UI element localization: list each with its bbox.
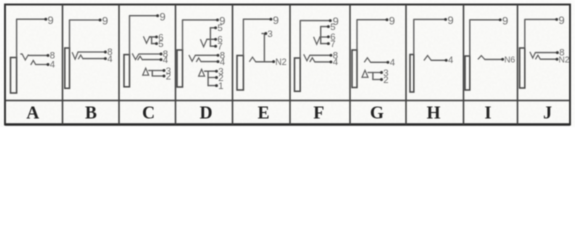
svg-text:E: E bbox=[258, 102, 270, 122]
wire to pin 4, column D bbox=[201, 61, 217, 63]
pin 9 junction dot, column B bbox=[99, 19, 102, 22]
element symbol V, column F upper group bbox=[314, 37, 320, 45]
wire from element bar top to pin 9, column F bbox=[300, 21, 330, 58]
column divider 8 bbox=[463, 5, 465, 125]
transducer element bar, column B bbox=[65, 48, 70, 88]
wire to pin 6, column D bbox=[207, 38, 215, 40]
pin 1 junction dot, column D bbox=[215, 84, 218, 87]
column divider 7 bbox=[405, 5, 407, 125]
svg-text:J: J bbox=[543, 102, 552, 122]
pin 8 junction dot, column B bbox=[104, 51, 107, 54]
pin 5 junction dot, column F bbox=[327, 25, 330, 28]
column divider 2 bbox=[118, 5, 120, 125]
element symbol caret, column J bbox=[535, 55, 540, 59]
transducer element bar, column F bbox=[295, 58, 301, 91]
wire to pin 1, column D bbox=[208, 85, 215, 87]
element symbol V, column J bbox=[530, 52, 536, 58]
svg-text:I: I bbox=[485, 102, 492, 122]
column divider 1 bbox=[62, 5, 64, 125]
letter row separator line bbox=[5, 100, 570, 102]
pin 9 junction dot, column H bbox=[444, 18, 447, 21]
table bottom border emphasis bbox=[5, 123, 570, 126]
element symbol caret, column G bbox=[364, 58, 370, 63]
wire to pin 4, column F bbox=[315, 61, 330, 63]
element symbol caret, column H bbox=[424, 56, 431, 61]
wire to pin 3, column C bbox=[152, 70, 163, 72]
element symbol caret, column I bbox=[478, 56, 485, 60]
wire to pin 2, column D bbox=[208, 77, 215, 79]
wire to pin 4, column B bbox=[83, 58, 104, 60]
pin N2 junction dot, column E bbox=[272, 60, 275, 63]
pin 6 junction dot, column C bbox=[155, 35, 158, 38]
svg-text:2: 2 bbox=[166, 72, 171, 83]
svg-text:9: 9 bbox=[559, 15, 565, 27]
svg-text:C: C bbox=[142, 102, 155, 122]
wire to pin 8, column J bbox=[536, 52, 557, 54]
column divider 9 bbox=[517, 5, 519, 125]
element symbol caret, column D bbox=[196, 58, 201, 62]
svg-text:3: 3 bbox=[267, 29, 272, 40]
element symbol V, column D middle group bbox=[189, 55, 195, 61]
transducer element bar, column I bbox=[465, 56, 470, 90]
pin 5 junction dot, column D bbox=[214, 26, 217, 29]
fork riser for pins 5-6-7, column D bbox=[209, 28, 211, 46]
pin 4 junction dot, column C bbox=[160, 58, 163, 61]
column divider 5 bbox=[289, 5, 291, 125]
svg-text:G: G bbox=[370, 102, 384, 122]
pin N6 junction dot, column I bbox=[501, 58, 504, 61]
svg-text:9: 9 bbox=[48, 15, 54, 27]
svg-text:D: D bbox=[200, 102, 213, 122]
svg-text:9: 9 bbox=[160, 11, 166, 23]
element symbol triangle, column G lower group bbox=[362, 70, 368, 77]
element symbol V, column B bbox=[72, 52, 78, 59]
svg-text:F: F bbox=[313, 102, 324, 122]
element symbol triangle, column C lower group bbox=[143, 68, 149, 75]
element symbol V, column D upper group bbox=[200, 39, 206, 47]
wire from element bar top to pin 9, column E bbox=[243, 19, 270, 55]
pin 7 junction dot, column F bbox=[327, 42, 330, 45]
pin 6 junction dot, column F bbox=[327, 35, 330, 38]
pin 8 junction dot, column C bbox=[160, 53, 163, 56]
svg-text:N2: N2 bbox=[559, 55, 570, 65]
element symbol V, column A bbox=[20, 54, 28, 60]
element symbol V, column C upper group bbox=[143, 36, 149, 43]
wire to pin 3, column D bbox=[208, 70, 215, 72]
column divider 3 bbox=[175, 5, 177, 125]
wire to pin N6, column I bbox=[485, 58, 502, 60]
wire to pin N2, column E bbox=[256, 61, 273, 63]
svg-text:N6: N6 bbox=[504, 54, 515, 64]
wire to pin 4, column C bbox=[143, 59, 160, 61]
svg-text:1: 1 bbox=[218, 81, 223, 92]
column divider 4 bbox=[232, 5, 234, 125]
pin 9 junction dot, column D bbox=[216, 18, 219, 21]
element symbol caret, column B bbox=[78, 55, 83, 59]
wire from element bar top to pin 9, column C bbox=[130, 16, 158, 55]
fork wire for pins 3 and 2, column G bbox=[368, 73, 373, 80]
wire to pin 2, column G bbox=[373, 79, 381, 81]
element symbol caret, column C bbox=[138, 56, 143, 60]
wire to pin 4, column A bbox=[36, 64, 47, 66]
wire to pin 6, column F bbox=[320, 36, 328, 38]
pin 9 junction dot, column C bbox=[156, 14, 159, 17]
pin 3 junction dot, column G bbox=[380, 71, 383, 74]
element symbol V, column F middle group bbox=[304, 54, 310, 61]
svg-text:B: B bbox=[85, 102, 97, 122]
wire to pin 7, column F bbox=[321, 43, 328, 45]
svg-text:7: 7 bbox=[330, 39, 335, 50]
pin 4 junction dot, column B bbox=[104, 57, 107, 60]
pin 4 junction dot, column F bbox=[329, 60, 332, 63]
pin 8 junction dot, column J bbox=[556, 51, 559, 54]
pin 4 junction dot, column H bbox=[445, 59, 448, 62]
pin 5 junction dot, column C bbox=[155, 42, 158, 45]
wire from element bar top to pin 9, column I bbox=[470, 20, 500, 56]
svg-text:9: 9 bbox=[389, 15, 395, 27]
fork wire for pins 6 and 5, column C bbox=[150, 37, 152, 44]
transducer element bar, column D bbox=[177, 50, 183, 87]
pin 9 junction dot, column F bbox=[329, 19, 332, 22]
wire to pin 2, column C bbox=[152, 75, 163, 77]
wire to pin 4, column G bbox=[371, 61, 387, 63]
svg-text:N2: N2 bbox=[275, 57, 287, 67]
wire from element bar top to pin 9, column B bbox=[70, 20, 100, 48]
pin 8 junction dot, column A bbox=[47, 54, 50, 57]
wire to pin 8, column B bbox=[78, 51, 104, 53]
wire to pin 8, column C bbox=[139, 53, 160, 55]
pin 9 junction dot, column J bbox=[555, 18, 558, 21]
svg-text:9: 9 bbox=[273, 15, 279, 27]
wire to pin 4, column H bbox=[431, 59, 445, 61]
fork riser for pins 5-6-7, column F bbox=[320, 27, 322, 44]
pin 9 junction dot, column A bbox=[44, 18, 47, 21]
pin 6 junction dot, column D bbox=[214, 38, 217, 41]
pin 9 junction dot, column G bbox=[386, 18, 389, 21]
wire from element bar top to pin 9, column A bbox=[17, 19, 46, 57]
svg-text:2: 2 bbox=[383, 75, 388, 86]
pin 3 junction dot, column E bbox=[264, 32, 267, 35]
transducer element bar, column C bbox=[124, 55, 130, 87]
pin N2 junction dot, column J bbox=[556, 58, 559, 61]
svg-text:5: 5 bbox=[217, 23, 222, 34]
svg-text:4: 4 bbox=[448, 55, 453, 66]
fork riser for pins 3-2-1, column D bbox=[205, 71, 209, 85]
svg-text:9: 9 bbox=[502, 15, 508, 27]
wire to pin 5, column D bbox=[210, 27, 214, 29]
pin 8 junction dot, column D bbox=[217, 54, 220, 57]
pin 3 junction dot, column C bbox=[163, 69, 166, 72]
transducer element bar, column A bbox=[11, 58, 17, 94]
pin 4 junction dot, column G bbox=[386, 61, 389, 64]
element symbol triangle, column D lower group bbox=[199, 69, 205, 76]
column divider 6 bbox=[349, 5, 351, 125]
wire from element bar top to pin 9, column J bbox=[525, 19, 556, 48]
svg-text:A: A bbox=[26, 102, 39, 122]
pin 4 junction dot, column D bbox=[217, 60, 220, 63]
transducer element bar, column H bbox=[410, 55, 414, 93]
wire from element bar top to pin 9, column G bbox=[357, 20, 387, 50]
wire to pin 8, column F bbox=[310, 54, 330, 56]
pin 9 junction dot, column E bbox=[269, 18, 272, 21]
svg-text:4: 4 bbox=[107, 54, 112, 65]
svg-text:4: 4 bbox=[390, 58, 395, 69]
pin 7 junction dot, column D bbox=[214, 45, 217, 48]
element symbol caret, column E bbox=[249, 57, 255, 62]
transducer element bar, column J bbox=[520, 48, 525, 88]
transducer element bar, column E bbox=[237, 56, 243, 91]
wire to pin 5, column C bbox=[152, 43, 156, 45]
wire from element bar top to pin 9, column D bbox=[183, 20, 218, 50]
wire to pin 7, column D bbox=[210, 45, 214, 47]
wire to pin 8, column A bbox=[29, 54, 47, 56]
wire to pin N2, column J bbox=[540, 58, 556, 60]
fork wire for pins 3 and 2, column C bbox=[149, 71, 153, 77]
element symbol caret, column A bbox=[31, 60, 36, 65]
svg-text:4: 4 bbox=[50, 60, 55, 71]
svg-text:9: 9 bbox=[448, 15, 454, 27]
pin 4 junction dot, column A bbox=[47, 63, 50, 66]
wire to pin 6, column C bbox=[150, 36, 156, 38]
pin 2 junction dot, column D bbox=[215, 76, 218, 79]
riser wire to pin 3, column E bbox=[262, 34, 264, 62]
pin 9 junction dot, column I bbox=[499, 18, 502, 21]
wire from element bar top to pin 9, column H bbox=[414, 19, 445, 54]
pin 2 junction dot, column G bbox=[380, 78, 383, 81]
wire to pin 5, column F bbox=[321, 26, 328, 28]
element symbol caret, column F bbox=[310, 58, 315, 62]
transducer element bar, column G bbox=[352, 50, 357, 88]
wire to pin 8, column D bbox=[195, 54, 217, 56]
svg-text:4: 4 bbox=[163, 55, 168, 66]
wire to pin 3, column G bbox=[373, 72, 381, 74]
svg-text:H: H bbox=[427, 102, 441, 122]
element symbol V, column C middle group bbox=[132, 53, 139, 59]
svg-text:4: 4 bbox=[333, 57, 338, 68]
svg-text:9: 9 bbox=[102, 16, 108, 28]
pin 8 junction dot, column F bbox=[329, 54, 332, 57]
table outer border bbox=[5, 5, 570, 125]
pin 2 junction dot, column C bbox=[163, 75, 166, 78]
pin 3 junction dot, column D bbox=[215, 70, 218, 73]
